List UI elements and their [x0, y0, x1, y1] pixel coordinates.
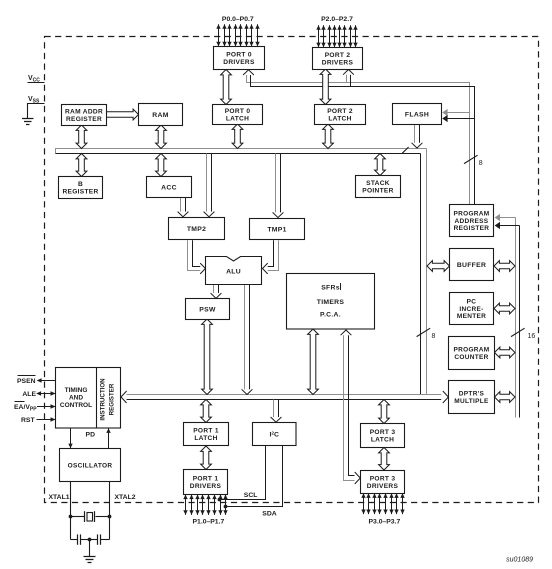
arrowhead SFR bus up into SFRs — [341, 330, 352, 335]
arrow port 0 latch to bus — [232, 124, 243, 149]
arrow main bus band to buffer — [427, 261, 450, 272]
arrow bus to TMP1 — [273, 154, 284, 218]
svg-text:OSCILLATOR: OSCILLATOR — [68, 462, 113, 469]
svg-text:LATCH: LATCH — [226, 116, 249, 123]
Vcc pin — [28, 75, 45, 84]
svg-text:PORT 1: PORT 1 — [193, 476, 219, 483]
arrow bus to ACC — [156, 154, 167, 177]
svg-text:PORT 2: PORT 2 — [325, 52, 351, 59]
svg-text:DRIVERS: DRIVERS — [367, 483, 399, 490]
svg-text:DRIVERS: DRIVERS — [223, 59, 255, 66]
wire TIMING to OSCILLATOR — [68, 428, 72, 448]
svg-text:PROGRAM: PROGRAM — [453, 347, 489, 354]
arrow port 2 latch to bus — [323, 124, 334, 149]
arrowhead program bus into port 2 drivers — [343, 70, 354, 75]
arrow port 0 drivers to port 0 latch — [221, 70, 232, 105]
arrow TMP2 to ALU — [188, 240, 206, 274]
arrowhead lower bus into instruction register — [121, 391, 127, 403]
arrow RAM address register to RAM — [107, 109, 139, 120]
block RAM ADDR REGISTER — [62, 105, 107, 126]
bus width slash 8 on program bus — [464, 155, 483, 167]
svg-text:DRIVERS: DRIVERS — [322, 60, 354, 67]
block TIMING AND CONTROL with INSTRUCTION REGISTER — [56, 368, 121, 429]
svg-text:TMP2: TMP2 — [187, 226, 206, 233]
arrow FLASH to main bus — [412, 124, 423, 148]
arrow buffer to 16-bus — [494, 261, 515, 272]
arrow PC incrementer to 16-bus — [494, 303, 515, 314]
svg-text:SCL: SCL — [244, 492, 258, 499]
svg-text:REGISTER: REGISTER — [454, 225, 490, 232]
svg-text:P.C.A.: P.C.A. — [320, 312, 341, 319]
wire SDA — [226, 446, 283, 507]
wire OSCILLATOR to INSTRUCTION REGISTER — [106, 428, 110, 448]
label P3.0-P3.7 — [369, 519, 401, 526]
node XTAL1 junction — [69, 515, 73, 519]
svg-text:PSEN: PSEN — [17, 378, 36, 385]
block PC INCREMENTER — [450, 293, 494, 325]
label P2.0-P2.7 — [321, 16, 353, 23]
pin RST — [21, 417, 56, 424]
bus program feed from port drivers to program address register — [247, 72, 475, 205]
svg-text:ADDRESS: ADDRESS — [455, 218, 489, 225]
svg-text:TMP1: TMP1 — [267, 226, 286, 233]
pins P2.0-P2.7 arrows — [316, 25, 357, 47]
label XTAL1 — [49, 494, 70, 501]
arrow port 2 drivers to port 2 latch — [320, 69, 331, 105]
svg-text:TIMING: TIMING — [65, 387, 88, 394]
svg-text:LATCH: LATCH — [371, 437, 394, 444]
Vss pin — [28, 96, 45, 118]
arrow lower bus to I2C — [271, 400, 282, 423]
arrowhead program bus into port 0 drivers — [243, 70, 254, 75]
arrow ACC to TMP2 — [178, 198, 189, 217]
svg-text:ALE: ALE — [22, 391, 36, 398]
ground symbol crystal — [84, 557, 96, 563]
arrow 16-bus into program address register (black) — [495, 222, 520, 229]
block BUFFER — [450, 249, 494, 281]
bus lower internal band — [123, 395, 441, 400]
svg-text:MENTER: MENTER — [457, 313, 486, 320]
pins P3.0-P3.7 arrows — [361, 493, 404, 514]
bus main internal band — [56, 149, 427, 154]
svg-text:LATCH: LATCH — [328, 116, 351, 123]
node SDA junction — [224, 505, 228, 509]
arrow 16-bus into program address register (gray) — [495, 214, 516, 221]
svg-text:ALU: ALU — [226, 269, 241, 276]
svg-text:PSW: PSW — [199, 306, 216, 313]
block PORT 1 LATCH — [184, 423, 229, 446]
block PROGRAM COUNTER — [449, 337, 495, 370]
svg-text:PROGRAM: PROGRAM — [453, 211, 489, 218]
block PORT 2 DRIVERS — [313, 48, 363, 70]
bus width slash 16 on 16-bus — [511, 328, 535, 340]
svg-text:PORT 3: PORT 3 — [370, 476, 396, 483]
pin ALE — [22, 391, 55, 398]
block B REGISTER — [59, 177, 103, 199]
block ACC — [147, 177, 192, 198]
bus 16-bit program counter vertical pair — [516, 218, 520, 418]
arrow port 3 latch to port 3 drivers — [379, 448, 390, 471]
node capacitor center junction — [88, 538, 92, 542]
node XTAL2 junction — [108, 515, 112, 519]
label PD — [86, 432, 96, 439]
arrow ALU to lower bus — [242, 284, 253, 394]
block PROGRAM ADDRESS REGISTER — [450, 205, 494, 237]
arrow lower bus to port 1 latch — [201, 400, 212, 423]
wire XTAL1 from oscillator — [70, 482, 72, 517]
wire branch program bus up into port 2 drivers — [347, 74, 351, 87]
block SFRs TIMERS PCA — [287, 274, 375, 330]
pins P0.0-P0.7 arrows — [216, 24, 259, 46]
arrow program counter to 16-bus — [495, 347, 516, 358]
block PORT 0 DRIVERS — [214, 47, 265, 70]
wire SCL — [220, 446, 266, 500]
svg-text:B: B — [78, 181, 83, 188]
arrow port 1 latch to port 1 drivers — [201, 446, 212, 470]
svg-text:LATCH: LATCH — [194, 435, 217, 442]
svg-text:8: 8 — [432, 333, 436, 340]
svg-text:ACC: ACC — [161, 184, 177, 191]
svg-text:DRIVERS: DRIVERS — [190, 483, 222, 490]
bus main vertical segment to lower bus — [421, 149, 427, 395]
block PSW — [186, 299, 230, 320]
block TMP1 — [250, 219, 305, 240]
wire crystal right down — [109, 517, 111, 540]
arrow lower bus to port 3 latch — [379, 400, 390, 424]
pin PSEN — [17, 376, 56, 386]
label XTAL2 — [115, 494, 136, 501]
arrow DPTR multiple to 16-bus — [495, 392, 516, 403]
arrow ALU to PSW — [211, 284, 222, 298]
arrow program bus into flash (gray) — [442, 109, 469, 116]
svg-text:PORT 2: PORT 2 — [327, 108, 353, 115]
svg-text:RAM: RAM — [152, 112, 168, 119]
label SDA — [262, 511, 276, 518]
bus width tick on main bus — [402, 147, 408, 153]
arrowhead SFR bus into port 3 drivers — [355, 472, 361, 484]
block FLASH — [393, 104, 442, 125]
wire crystal left down — [70, 517, 72, 540]
chip boundary dashed border — [45, 37, 539, 503]
svg-text:XTAL2: XTAL2 — [115, 494, 136, 501]
svg-text:SDA: SDA — [262, 511, 276, 518]
arrowhead lower bus into DPTR multiple — [443, 391, 449, 403]
svg-text:TIMERS: TIMERS — [317, 299, 345, 306]
svg-text:RAM ADDR: RAM ADDR — [65, 109, 103, 116]
arrow bus to B register — [76, 154, 87, 177]
block PORT 1 DRIVERS — [184, 470, 228, 495]
arrow bus to TMP2 — [204, 154, 215, 217]
crystal Y1 — [71, 511, 110, 522]
svg-text:su01089: su01089 — [506, 557, 533, 564]
label P1.0-P1.7 — [193, 519, 225, 526]
pins P1.0-P1.7 arrows — [183, 495, 227, 515]
svg-text:PD: PD — [86, 432, 96, 439]
arrow program bus into flash (black) — [442, 115, 474, 122]
block STACK POINTER — [356, 176, 401, 198]
arrow SFRs to lower bus — [308, 329, 319, 395]
svg-text:BUFFER: BUFFER — [457, 262, 486, 269]
svg-text:INCRE-: INCRE- — [459, 306, 483, 313]
label su01089 — [506, 557, 533, 564]
bus SFR column down to port 3 drivers — [344, 334, 355, 481]
label SCL — [244, 492, 258, 499]
svg-text:MULTIPLE: MULTIPLE — [454, 398, 489, 405]
arrow RAM to bus — [156, 125, 167, 149]
svg-text:RST: RST — [21, 417, 35, 424]
block DPTR'S MULTIPLE — [449, 381, 495, 414]
block PORT 2 LATCH — [315, 105, 366, 125]
svg-text:AND: AND — [69, 394, 83, 401]
svg-text:POINTER: POINTER — [362, 188, 393, 195]
arrow PSW to lower bus — [202, 319, 213, 395]
svg-text:STACK: STACK — [366, 180, 390, 187]
svg-text:XTAL1: XTAL1 — [49, 494, 70, 501]
svg-text:8: 8 — [479, 160, 483, 167]
block PORT 0 LATCH — [213, 105, 263, 125]
arrow TMP1 to ALU — [263, 240, 279, 274]
wire XTAL2 from oscillator — [109, 482, 111, 517]
block TMP2 — [169, 218, 225, 240]
label P0.0-P0.7 — [222, 16, 254, 23]
wire to crystal ground — [89, 540, 91, 557]
block RAM — [139, 104, 183, 126]
svg-text:P1.0–P1.7: P1.0–P1.7 — [193, 519, 225, 526]
svg-text:PC: PC — [467, 299, 477, 306]
capacitor C1 — [71, 534, 90, 544]
arrow RAM address register to bus — [76, 125, 87, 149]
svg-text:P2.0–P2.7: P2.0–P2.7 — [321, 16, 353, 23]
svg-text:INSTRUCTION: INSTRUCTION — [100, 378, 107, 421]
block I2C — [253, 423, 297, 446]
svg-text:SFRs: SFRs — [321, 285, 340, 292]
svg-text:P0.0–P0.7: P0.0–P0.7 — [222, 16, 254, 23]
svg-text:P3.0–P3.7: P3.0–P3.7 — [369, 519, 401, 526]
bus width slash 8 on vertical band — [417, 328, 436, 340]
block PORT 3 LATCH — [361, 424, 405, 448]
svg-text:PORT 3: PORT 3 — [370, 429, 396, 436]
node SCL junction — [218, 498, 222, 502]
svg-text:REGISTER: REGISTER — [66, 116, 102, 123]
svg-text:CONTROL: CONTROL — [60, 402, 92, 409]
svg-text:PORT 0: PORT 0 — [225, 108, 251, 115]
svg-text:REGISTER: REGISTER — [109, 383, 116, 415]
arrow bus to stack pointer — [375, 154, 386, 176]
ground symbol Vss — [22, 119, 34, 125]
svg-text:FLASH: FLASH — [405, 111, 429, 118]
svg-text:16: 16 — [528, 333, 536, 340]
capacitor C2 — [90, 534, 110, 544]
pin EA/VPP — [14, 402, 56, 413]
svg-text:PORT 0: PORT 0 — [226, 52, 252, 59]
svg-text:PORT 1: PORT 1 — [193, 428, 219, 435]
svg-text:DPTR'S: DPTR'S — [459, 391, 485, 398]
block ALU — [206, 257, 262, 285]
svg-text:REGISTER: REGISTER — [62, 189, 98, 196]
block PORT 3 DRIVERS — [361, 471, 405, 494]
svg-text:COUNTER: COUNTER — [454, 354, 488, 361]
svg-text:I2C: I2C — [270, 431, 279, 439]
block OSCILLATOR — [60, 449, 121, 482]
